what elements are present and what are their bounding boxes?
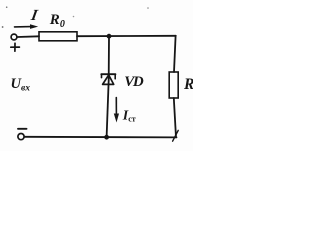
svg-text:VD: VD	[124, 74, 144, 90]
svg-text:Uвх: Uвх	[11, 76, 31, 94]
svg-text:I: I	[29, 7, 40, 24]
svg-text:Iст: Iст	[122, 108, 136, 123]
svg-text:R: R	[183, 76, 193, 93]
svg-text:R0: R0	[49, 12, 65, 30]
